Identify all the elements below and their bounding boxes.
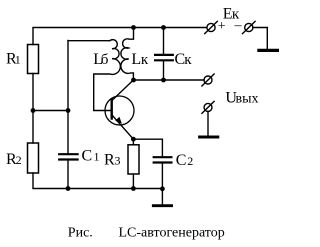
svg-text:LC-автогенератор: LC-автогенератор xyxy=(119,226,225,241)
svg-text:2: 2 xyxy=(187,154,193,168)
svg-text:C: C xyxy=(176,152,187,169)
svg-text:к: к xyxy=(141,52,149,68)
svg-text:1: 1 xyxy=(15,53,21,67)
svg-text:2: 2 xyxy=(16,153,22,167)
svg-text:–: – xyxy=(234,18,243,33)
svg-text:+: + xyxy=(218,19,226,34)
svg-text:L: L xyxy=(131,51,141,68)
svg-text:к: к xyxy=(184,52,192,68)
svg-text:Рис.: Рис. xyxy=(68,226,93,241)
svg-text:1: 1 xyxy=(94,150,100,164)
svg-text:C: C xyxy=(82,148,93,165)
svg-text:вых: вых xyxy=(236,92,259,107)
svg-text:R: R xyxy=(104,152,115,169)
svg-text:3: 3 xyxy=(115,154,121,168)
svg-text:б: б xyxy=(101,52,109,68)
